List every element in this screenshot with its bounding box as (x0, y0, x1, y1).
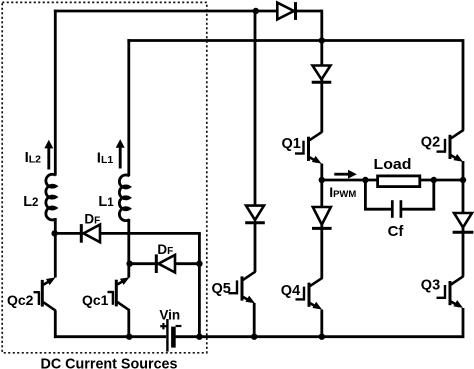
wire load rail y=180 (322, 179, 463, 182)
wire Q3 emitter to bottom rail corner (462, 308, 465, 338)
wire Qc1 emitter to bottom rail (127, 310, 130, 336)
svg-text:Qc1: Qc1 (82, 292, 109, 308)
dashed boundary box of DC current sources block (2, 2, 207, 352)
node dot bottom rail / Q4 (319, 334, 325, 340)
current arrow Ipwm (334, 170, 357, 179)
svg-text:Q2: Q2 (421, 134, 440, 150)
transistor Q4 (296, 278, 323, 310)
label DF row2 (157, 242, 173, 257)
node dot bottom rail / Q5 (251, 334, 257, 340)
svg-text:Cf: Cf (388, 223, 405, 240)
wire Q5 emitter to bottom rail (253, 303, 256, 337)
transistor Q5 (229, 272, 256, 304)
diode in Q4 column mid (pointing down) (312, 207, 332, 228)
label Q1 (282, 136, 301, 152)
diode at top rail (pointing right) (277, 2, 295, 20)
node dot L1 column / DF row2 (126, 261, 132, 267)
svg-text:L1: L1 (98, 194, 114, 210)
node dot bottom rail / Qc1 (126, 334, 132, 340)
wire second rail y=40.5 from L1 corner to Q2 column (127, 39, 463, 42)
label IL2 (25, 149, 42, 166)
capacitor Cf plates (392, 200, 401, 218)
inductor L2 coil (46, 174, 56, 220)
transistor Qc2 (34, 277, 56, 310)
label L2 (23, 194, 38, 210)
current arrow IL1 (116, 139, 125, 168)
svg-text:Q4: Q4 (281, 283, 300, 299)
node dot DF return column / row2 (196, 261, 202, 267)
label Q5 (212, 281, 231, 297)
label IL1 (97, 150, 114, 167)
battery plus sign (160, 323, 166, 329)
battery Vin long positive plate (166, 319, 168, 352)
wire Q4 column: load node down to Q4 collector (through diode) (320, 180, 323, 279)
wire L2 column vertical (top to coil) (54, 10, 57, 176)
node dot Q1 emitter / load rail (319, 177, 325, 183)
svg-text:L2: L2 (23, 194, 38, 210)
wire DF row1 horizontal (55, 232, 201, 235)
node dot L2 column / DF row1 (51, 230, 57, 236)
battery Vin short negative plate (171, 327, 176, 348)
wire L1 column vertical (corner to coil) (127, 39, 130, 176)
node dot load rail right of load (431, 177, 437, 183)
wire bottom rail right segment (Vin - plate to Q3 corner) (175, 335, 463, 338)
wire corner down from top rail into Q4 column (320, 10, 323, 41)
wire Cf left branch horizontal (364, 208, 393, 211)
wire Q4 emitter to bottom rail (320, 310, 323, 337)
label L1 (98, 194, 114, 210)
svg-text:Vin: Vin (159, 308, 180, 323)
wire Q5 column from top rail node down to diode (254, 11, 257, 207)
wire DF return column vertical (198, 233, 201, 336)
label DF row1 (84, 211, 100, 226)
svg-text:Q3: Q3 (421, 278, 440, 294)
node dot bottom rail / DF column (196, 334, 202, 340)
node dot second rail / Q4 column (319, 37, 325, 43)
diode in Q4 column upper (pointing down) (312, 66, 332, 83)
node dot load rail left of load (362, 177, 368, 183)
wire DF row2 horizontal (129, 262, 200, 265)
node dot load rail / Q2 column (460, 177, 466, 183)
svg-text:Load: Load (374, 157, 412, 173)
transistor Q3 (437, 276, 464, 308)
freewheel diode DF row1 (pointing left) (81, 224, 100, 243)
freewheel diode DF row2 (pointing left) (156, 254, 175, 273)
label Q3 (421, 278, 440, 294)
svg-text:Q1: Q1 (282, 136, 301, 152)
wire Q2/Q3 column: load node through diode to Q3 collector (462, 180, 465, 277)
wire Qc2 emitter to bottom rail (54, 310, 57, 338)
label Qc2 (7, 292, 34, 308)
wire Cf right branch vertical (432, 180, 435, 209)
label Ipwm (329, 184, 356, 200)
wire Cf right branch horizontal (401, 208, 436, 211)
label Vin (159, 308, 180, 323)
wire L2 column (coil bottom through node to Qc2 collector) (54, 218, 57, 278)
wire Q1 emitter to load node (320, 164, 323, 181)
diode D5 in Q5 column (pointing down) (245, 206, 265, 223)
caption DC Current Sources (41, 356, 178, 369)
node dot top rail / Q5 column (253, 8, 259, 14)
battery minus sign (176, 325, 182, 327)
svg-text:Q5: Q5 (212, 281, 231, 297)
diode in Q2 column (pointing down) (453, 213, 474, 232)
label Load (374, 157, 412, 173)
wire Q2 column: corner down to Q2 collector (462, 39, 465, 130)
label Cf (388, 223, 405, 240)
wire Q2 emitter to load-rail node (462, 161, 465, 180)
wire Q5 column diode-to-collector (254, 221, 257, 272)
label Qc1 (82, 292, 109, 308)
label Q4 (281, 283, 300, 299)
transistor Qc1 (108, 277, 130, 310)
wire top rail y=11 from L2 corner to Q4-column corner (54, 10, 322, 13)
wire bottom rail left segment (to Vin + plate) (54, 335, 166, 338)
svg-text:DC Current Sources: DC Current Sources (41, 356, 178, 369)
svg-text:Qc2: Qc2 (7, 292, 34, 308)
inductor L1 coil (119, 175, 129, 221)
wire L1 column (coil bottom through DF rows to Qc1) (127, 219, 130, 278)
wire Q4 column: second rail node to Q1 collector (through diode) (320, 41, 323, 133)
load resistor box (378, 176, 420, 187)
current arrow IL2 (44, 140, 53, 170)
transistor Q1 (295, 132, 322, 164)
transistor Q2 (437, 130, 464, 162)
wire Cf left branch vertical (364, 180, 367, 209)
label Q2 (421, 134, 440, 150)
